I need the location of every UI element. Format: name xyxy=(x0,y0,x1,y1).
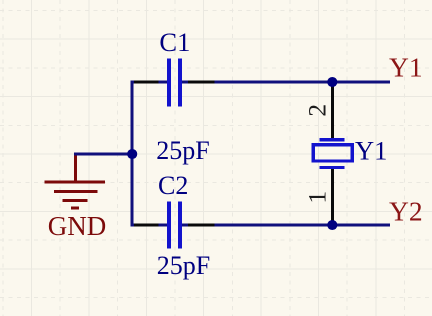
ground symbol bar 1 xyxy=(44,181,105,184)
capacitor C2 pin 2 (black lead right) xyxy=(188,224,215,227)
ground symbol bar 3 xyxy=(63,199,88,202)
crystal Y1 top electrode plate xyxy=(320,138,345,141)
capacitor C2 pin 1 (black lead left) xyxy=(134,224,159,227)
junction at GND branch and bus xyxy=(127,149,137,159)
junction at crystal pin 1 and net Y2 xyxy=(327,220,337,230)
wire: GND branch horizontal xyxy=(74,152,132,155)
svg-text:Y2: Y2 xyxy=(389,196,423,227)
svg-text:Y1: Y1 xyxy=(355,135,387,165)
capacitor C1 pin 1 (black lead left) xyxy=(134,81,159,84)
crystal Y1 pin 1 (black lead bottom) xyxy=(331,169,334,226)
wire: top net Y1 horizontal, left stub to C1 plate xyxy=(130,81,167,84)
capacitor C1 plates xyxy=(169,59,180,107)
ground symbol bar 4 xyxy=(71,207,79,210)
ground symbol stem xyxy=(74,155,77,182)
ground symbol bar 2 xyxy=(54,190,97,193)
crystal Y1 pin 2 (black lead top) xyxy=(331,82,334,139)
crystal Y1 bottom electrode plate xyxy=(320,166,345,169)
wire: bottom net Y2 horizontal, from C2 right plate to end xyxy=(182,224,390,227)
svg-text:1: 1 xyxy=(302,191,331,204)
svg-text:2: 2 xyxy=(302,104,331,117)
crystal Y1 body rectangle xyxy=(313,145,352,161)
wire: left vertical bus joining C1 and C2 xyxy=(130,81,133,227)
svg-text:C2: C2 xyxy=(158,171,188,200)
svg-text:25pF: 25pF xyxy=(156,136,209,165)
svg-text:C1: C1 xyxy=(159,27,190,57)
svg-text:GND: GND xyxy=(48,211,107,241)
svg-text:Y1: Y1 xyxy=(389,52,423,83)
wire: top net Y1 horizontal, from C1 right plate to end xyxy=(182,81,390,84)
svg-text:25pF: 25pF xyxy=(157,251,210,280)
capacitor C2 plates xyxy=(169,202,180,249)
capacitor C1 pin 2 (black lead right) xyxy=(188,81,215,84)
junction at crystal pin 2 and net Y1 xyxy=(327,77,337,87)
wire: bottom net Y2 horizontal, left stub to C2 plate xyxy=(130,224,167,227)
